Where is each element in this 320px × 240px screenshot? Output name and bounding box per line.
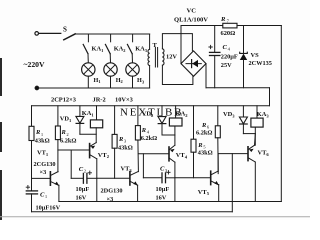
- svg-text:KA1: KA1: [92, 46, 104, 53]
- svg-text:10µF16V: 10µF16V: [36, 205, 61, 212]
- wire VD3 to KA3 branch: [243, 133, 255, 135]
- svg-text:KA3: KA3: [257, 111, 270, 118]
- wire VT5 collector up: [217, 154, 219, 172]
- svg-text:VT6: VT6: [258, 149, 270, 156]
- wire right rail down: [280, 26, 282, 202]
- svg-text:43kΩ: 43kΩ: [118, 145, 133, 152]
- svg-text:R: R: [220, 16, 226, 23]
- transistor VT6: [248, 145, 255, 162]
- terminal top (220V line): [35, 32, 39, 36]
- svg-text:S: S: [63, 26, 67, 34]
- lower box left edge: [31, 106, 33, 191]
- relay KA1: [90, 106, 102, 143]
- wire dc minus rail: [206, 87, 270, 89]
- relay KA3: [251, 106, 263, 145]
- wire R7 to right rail: [237, 25, 281, 27]
- wire bottom bus 220V: [39, 87, 150, 89]
- svg-text:10µF: 10µF: [156, 186, 170, 193]
- wire VT4 emitter down: [174, 162, 176, 201]
- svg-text:KA2: KA2: [176, 111, 189, 118]
- svg-text:2: 2: [66, 132, 69, 137]
- svg-text:VT4: VT4: [176, 152, 188, 159]
- transistor VT5: [211, 171, 219, 185]
- svg-text:43kΩ: 43kΩ: [35, 138, 50, 145]
- svg-text:VC: VC: [187, 8, 197, 15]
- wire VT5 base: [175, 177, 211, 179]
- svg-text:6.2kΩ: 6.2kΩ: [141, 135, 157, 142]
- wire VT6 emitter down: [254, 162, 256, 202]
- svg-text:6.2kΩ: 6.2kΩ: [60, 138, 76, 145]
- wire secondary bottom to bridge: [162, 65, 193, 84]
- svg-text:KA3: KA3: [135, 46, 148, 53]
- terminal bottom (220V line): [35, 86, 39, 90]
- wire VT2 base: [58, 149, 90, 151]
- svg-text:VD3: VD3: [223, 111, 235, 118]
- svg-text:VT5: VT5: [198, 189, 210, 196]
- scan line bottom: [0, 216, 310, 218]
- svg-text:VD1: VD1: [60, 116, 72, 123]
- rectifier VC bridge: [181, 51, 206, 76]
- wire VT1 emitter down: [58, 185, 60, 201]
- emitter bus line A: [59, 201, 281, 203]
- wire bridge left vertex up to + rail: [180, 26, 182, 64]
- svg-text:4: 4: [147, 130, 150, 135]
- wire base branch to ground: [231, 154, 233, 212]
- wire + rail to R7: [181, 25, 223, 27]
- resistor R6: [215, 106, 220, 174]
- wire VD1 to KA1 branch: [80, 133, 96, 135]
- svg-text:12V: 12V: [166, 54, 177, 61]
- svg-text:10µF: 10µF: [76, 186, 90, 193]
- diode VD2: [158, 106, 166, 135]
- contact KA1: [83, 34, 88, 54]
- svg-text:H2: H2: [116, 77, 123, 84]
- wire VT1 base: [32, 177, 51, 179]
- wire VT4 base: [138, 153, 169, 155]
- svg-text:25V: 25V: [221, 62, 232, 69]
- svg-text:2CP12×3: 2CP12×3: [51, 96, 76, 103]
- svg-text:2CG130: 2CG130: [34, 161, 56, 168]
- capacitor C2: [71, 150, 97, 183]
- lamp H1: [82, 54, 95, 88]
- svg-text:H3: H3: [137, 77, 145, 84]
- wire VT6 base: [218, 153, 248, 155]
- svg-text:1: 1: [41, 132, 44, 137]
- wire VT6 collector to KA3: [254, 134, 257, 146]
- wire rail corner down to lower bus: [269, 88, 271, 106]
- zener VS 2CW135: [240, 26, 248, 88]
- contact KA3: [127, 34, 132, 54]
- resistor R2: [55, 106, 60, 172]
- svg-text:16V: 16V: [156, 195, 167, 202]
- transistor VT2: [90, 143, 97, 159]
- ground bus line B: [32, 211, 233, 213]
- svg-text:10V×3: 10V×3: [115, 96, 133, 103]
- wire to switch S: [39, 32, 61, 34]
- resistor R5: [191, 106, 196, 178]
- svg-text:6.2kΩ: 6.2kΩ: [196, 129, 212, 136]
- svg-text:VT2: VT2: [98, 152, 110, 159]
- resistor R4: [135, 106, 140, 172]
- resistor R1: [29, 126, 34, 140]
- wire VT2 emitter down: [96, 159, 98, 202]
- wire bridge right vertex down: [205, 64, 207, 88]
- svg-text:×3: ×3: [40, 169, 47, 176]
- transistor VT4: [169, 145, 175, 162]
- lamp H2: [104, 54, 117, 88]
- relay KA2: [169, 106, 182, 145]
- capacitor C1: [26, 186, 37, 212]
- svg-text:VT1: VT1: [37, 149, 49, 156]
- svg-text:2DG130: 2DG130: [101, 188, 123, 195]
- scan edge artifacts left border: [0, 58, 2, 220]
- capacitor C3: [143, 154, 175, 183]
- wire VT5 emitter down: [218, 185, 220, 202]
- wire secondary top to bridge: [162, 34, 192, 51]
- svg-text:3: 3: [124, 139, 127, 144]
- svg-text:VS: VS: [251, 52, 260, 59]
- svg-text:2CW135: 2CW135: [249, 60, 272, 67]
- svg-text:×3: ×3: [107, 196, 114, 203]
- wire VT3 emitter down: [137, 185, 139, 202]
- resistor R7: [223, 23, 237, 28]
- svg-text:~220V: ~220V: [24, 60, 46, 69]
- transistor VT1: [50, 172, 59, 186]
- transformer T: [148, 34, 164, 88]
- wire R1 down to base node: [31, 141, 33, 179]
- diode VD3: [239, 106, 247, 134]
- contact KA2: [105, 34, 110, 54]
- lamp H3: [126, 54, 139, 88]
- svg-text:4: 4: [228, 47, 231, 52]
- capacitor C4: [209, 26, 220, 88]
- wire top bus: [75, 33, 150, 35]
- lower box top bus: [32, 105, 270, 107]
- wire VD2 to KA2 branch: [162, 134, 175, 136]
- switch S blade: [64, 34, 75, 40]
- svg-text:T: T: [153, 42, 158, 49]
- svg-text:KA1: KA1: [82, 110, 95, 117]
- resistor R3: [112, 106, 117, 179]
- svg-text:QL1A/100V: QL1A/100V: [174, 17, 208, 24]
- svg-text:220µF: 220µF: [221, 53, 238, 60]
- wire VT3 base: [97, 177, 130, 179]
- transistor VT3: [130, 171, 139, 185]
- svg-text:16V: 16V: [76, 195, 87, 202]
- svg-text:JR-2: JR-2: [93, 96, 106, 103]
- diode VD1: [76, 106, 84, 134]
- svg-text:620Ω: 620Ω: [221, 30, 236, 37]
- svg-text:H1: H1: [94, 77, 101, 84]
- svg-text:1: 1: [45, 194, 48, 199]
- svg-text:KA2: KA2: [114, 46, 126, 53]
- svg-text:43kΩ: 43kΩ: [198, 150, 213, 157]
